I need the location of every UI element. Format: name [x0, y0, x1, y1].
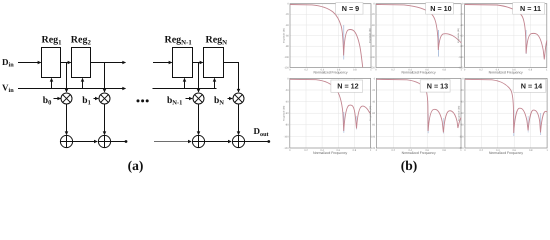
svg-text:RegN-1: RegN-1 [165, 35, 193, 47]
adder 3 [192, 135, 204, 147]
svg-text:(b): (b) [401, 158, 418, 173]
wire multiplier bN to adder 4 [238, 104, 240, 135]
svg-text:N = 14: N = 14 [521, 82, 542, 91]
panel b plots [282, 3, 548, 155]
svg-text:0: 0 [375, 69, 377, 72]
svg-text:0.8: 0.8 [529, 149, 533, 152]
svg-text:-80: -80 [460, 124, 464, 127]
svg-text:Normalized Frequency: Normalized Frequency [313, 70, 347, 74]
svg-text:0.8: 0.8 [442, 149, 446, 152]
svg-text:0.2: 0.2 [480, 149, 484, 152]
svg-text:-100: -100 [458, 56, 464, 59]
plot 6 N=14 [457, 77, 548, 155]
wire clock into Reg2 [82, 78, 84, 88]
svg-text:0.8: 0.8 [353, 69, 357, 72]
plot 2 N=10 [369, 3, 463, 75]
svg-text:-40: -40 [460, 101, 464, 104]
register Reg2 [72, 48, 91, 78]
svg-text:-20: -20 [372, 89, 376, 92]
svg-text:-20: -20 [460, 13, 464, 16]
plot 3 N=11 [457, 3, 548, 75]
register Reg1 [42, 48, 61, 78]
svg-text:0.2: 0.2 [304, 149, 308, 152]
wire Reg1 to Reg2 [61, 62, 71, 64]
svg-text:0: 0 [464, 69, 466, 72]
wire into RegN-1 [153, 62, 172, 64]
svg-text:0: 0 [373, 3, 375, 6]
svg-text:Normalized Frequency: Normalized Frequency [313, 151, 347, 155]
svg-text:0: 0 [462, 3, 464, 6]
svg-text:Magnitude (dB): Magnitude (dB) [283, 28, 286, 43]
wire tap after Reg1 down to multiplier b0 [66, 63, 68, 93]
wire b0 into multiplier [54, 98, 61, 100]
wire adder 4 to D_out [245, 141, 268, 143]
svg-text:-80: -80 [460, 45, 464, 48]
wire multiplier b1 to adder 2 [104, 104, 106, 135]
wire Reg2 to right [91, 62, 126, 64]
svg-text:Dout: Dout [254, 126, 270, 138]
svg-text:Normalized Frequency: Normalized Frequency [402, 151, 436, 155]
svg-text:0: 0 [287, 77, 289, 80]
svg-text:-60: -60 [285, 35, 289, 38]
wire multiplier bN-1 to adder 3 [198, 104, 200, 135]
wire bN-1 into multiplier [186, 98, 193, 100]
wire V_in line right section [153, 88, 217, 90]
svg-text:0.2: 0.2 [304, 69, 308, 72]
svg-text:1: 1 [546, 149, 548, 152]
svg-text:-60: -60 [371, 35, 375, 38]
svg-text:N = 11: N = 11 [520, 4, 541, 13]
svg-text:Magnitude (dB): Magnitude (dB) [369, 28, 372, 43]
svg-text:RegN: RegN [206, 35, 228, 47]
wire adder 2 out to junction dot [111, 141, 125, 143]
wire bN into multiplier [228, 98, 233, 100]
wire tap between RegN-1 and RegN down to multiplier bN-1 [198, 63, 200, 93]
svg-text:N = 9: N = 9 [342, 4, 359, 13]
adder 1 [60, 135, 72, 147]
svg-text:0.8: 0.8 [529, 69, 533, 72]
svg-text:-80: -80 [372, 124, 376, 127]
svg-text:-100: -100 [459, 135, 465, 138]
svg-text:-60: -60 [460, 35, 464, 38]
svg-text:-60: -60 [372, 112, 376, 115]
svg-text:Vin: Vin [2, 82, 14, 94]
svg-text:Din: Din [2, 57, 14, 69]
svg-text:0.2: 0.2 [392, 149, 396, 152]
wire RegN-1 to RegN [193, 62, 203, 64]
svg-text:-40: -40 [372, 101, 376, 104]
multiplier b1 [99, 93, 110, 104]
wire clock into RegN [214, 78, 216, 88]
plot 4 N=12 [282, 77, 372, 155]
svg-text:N = 13: N = 13 [427, 82, 448, 91]
multiplier b0 [61, 93, 72, 104]
wire clock into Reg1 [51, 78, 53, 88]
adder 2 [98, 135, 110, 147]
svg-text:0: 0 [289, 69, 291, 72]
svg-text:-100: -100 [284, 56, 290, 59]
svg-text:b0: b0 [43, 96, 52, 107]
register RegN-1 [173, 48, 193, 78]
svg-text:b1: b1 [82, 96, 91, 107]
svg-text:0: 0 [376, 149, 378, 152]
multiplier bN [233, 93, 244, 104]
svg-text:0: 0 [462, 77, 464, 80]
svg-text:0: 0 [289, 149, 291, 152]
svg-text:N = 12: N = 12 [337, 82, 358, 91]
svg-text:Magnitude (dB): Magnitude (dB) [282, 105, 285, 120]
svg-text:-20: -20 [460, 89, 464, 92]
svg-text:0.8: 0.8 [353, 149, 357, 152]
svg-text:N = 10: N = 10 [430, 4, 451, 13]
wire tap after Reg2 down to multiplier b1 [104, 63, 106, 93]
svg-text:0.8: 0.8 [442, 69, 446, 72]
svg-text:0.2: 0.2 [479, 69, 483, 72]
svg-text:Reg2: Reg2 [71, 35, 92, 47]
svg-text:Normalized Frequency: Normalized Frequency [402, 70, 436, 74]
svg-text:Magnitude (dB): Magnitude (dB) [457, 105, 460, 120]
svg-text:-60: -60 [460, 112, 464, 115]
register RegN [204, 48, 224, 78]
wire adder 1 to adder 2 [73, 141, 98, 143]
wire b1 into multiplier [94, 98, 99, 100]
svg-text:(a): (a) [128, 158, 144, 173]
svg-text:-80: -80 [285, 45, 289, 48]
wire multiplier b0 to adder 1 [66, 104, 68, 135]
ellipsis dots [137, 99, 140, 102]
svg-text:-20: -20 [371, 13, 375, 16]
svg-text:0: 0 [464, 149, 466, 152]
wire into adder 3 [154, 141, 191, 143]
svg-text:0.2: 0.2 [391, 69, 395, 72]
svg-text:bN: bN [214, 96, 224, 107]
svg-text:-40: -40 [285, 24, 289, 27]
plot 1 N=9 [283, 3, 373, 75]
svg-text:-40: -40 [460, 24, 464, 27]
multiplier bN-1 [193, 93, 204, 104]
wire V_in line left section [18, 88, 126, 90]
wire adder 3 to adder 4 [205, 141, 232, 143]
svg-text:-20: -20 [285, 89, 289, 92]
junction dot adder2 out [125, 140, 128, 143]
svg-text:bN-1: bN-1 [167, 96, 182, 107]
wire clock into RegN-1 [184, 78, 186, 88]
svg-text:0: 0 [287, 3, 289, 6]
svg-text:-40: -40 [371, 24, 375, 27]
svg-text:-80: -80 [285, 124, 289, 127]
svg-text:Normalized Frequency: Normalized Frequency [489, 151, 523, 155]
adder 4 [232, 135, 244, 147]
svg-text:-60: -60 [285, 112, 289, 115]
svg-text:Reg1: Reg1 [42, 35, 63, 47]
svg-text:-100: -100 [370, 135, 376, 138]
plot 5 N=13 [369, 77, 462, 155]
svg-text:-80: -80 [371, 45, 375, 48]
svg-text:Normalized Frequency: Normalized Frequency [489, 70, 523, 74]
svg-text:-100: -100 [370, 56, 376, 59]
wire D_in to Reg1 [18, 62, 41, 64]
junction dot D_out end [267, 140, 270, 143]
svg-text:1: 1 [546, 69, 548, 72]
svg-text:-40: -40 [285, 101, 289, 104]
svg-text:0: 0 [374, 77, 376, 80]
svg-text:Magnitude (dB): Magnitude (dB) [457, 28, 460, 43]
wire RegN output to multiplier bN [224, 63, 239, 93]
svg-text:-100: -100 [284, 135, 290, 138]
svg-text:Magnitude (dB): Magnitude (dB) [369, 105, 372, 120]
svg-text:-20: -20 [285, 13, 289, 16]
